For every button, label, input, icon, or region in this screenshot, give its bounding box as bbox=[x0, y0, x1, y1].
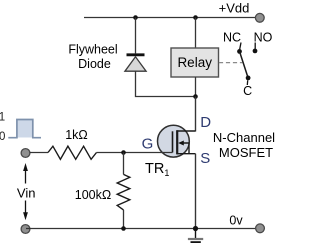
terminal 0v bbox=[256, 224, 265, 233]
terminal +Vdd bbox=[255, 13, 264, 22]
node: drain junction bbox=[193, 94, 198, 99]
switch arm C-NC bbox=[240, 51, 249, 78]
transistor TR1 gate bar bbox=[172, 131, 174, 152]
svg-text:+Vdd: +Vdd bbox=[219, 0, 250, 15]
svg-text:D: D bbox=[200, 114, 211, 131]
dashed link relay to contact arm bbox=[219, 62, 242, 64]
wire: resistor R1 to gate bbox=[97, 152, 173, 154]
wire: +Vdd top rail bbox=[84, 17, 256, 19]
ground stub bbox=[195, 229, 197, 239]
wire: source to 0v rail bbox=[195, 154, 197, 229]
resistor R2 100k zigzag bbox=[117, 174, 130, 210]
wire: NC contact stub bbox=[240, 43, 241, 50]
wire: resistor R2 to 0v rail bbox=[123, 210, 125, 229]
wire: diode anode to drain node bbox=[136, 71, 196, 96]
resistor R1 1k zigzag bbox=[48, 146, 97, 159]
relay K1 bbox=[171, 48, 219, 77]
wire: junction to resistor R2 bbox=[123, 153, 125, 175]
svg-text:N-Channel: N-Channel bbox=[213, 130, 275, 145]
diode D1 cathode bar bbox=[127, 53, 145, 56]
wire: relay coil bottom bbox=[195, 77, 197, 97]
node: gate junction bbox=[121, 150, 126, 155]
transistor TR1 body arrow bbox=[178, 141, 184, 146]
transistor TR1 drain lead bbox=[177, 130, 195, 132]
terminal Vin- bbox=[21, 225, 30, 234]
wire: 0v bottom rail bbox=[26, 228, 256, 230]
svg-text:TR1: TR1 bbox=[145, 161, 169, 178]
svg-text:C: C bbox=[243, 84, 252, 98]
ground bar 1 bbox=[188, 238, 203, 240]
svg-text:NC: NC bbox=[223, 31, 241, 45]
transistor TR1 body wire bbox=[183, 143, 189, 154]
svg-text:0: 0 bbox=[0, 131, 5, 143]
svg-text:1: 1 bbox=[0, 112, 5, 124]
svg-text:Vin: Vin bbox=[17, 186, 36, 201]
svg-text:G: G bbox=[142, 135, 154, 152]
Vin arrow up head bbox=[23, 163, 28, 171]
svg-text:0v: 0v bbox=[229, 213, 243, 227]
terminal Vin+ bbox=[21, 149, 30, 158]
Vin arrow up bbox=[25, 170, 27, 184]
transistor TR1 channel bar bbox=[176, 130, 178, 154]
wire: NO contact stub bbox=[254, 43, 256, 49]
Vin arrow down bbox=[25, 201, 27, 214]
node: NO contact bbox=[253, 49, 258, 54]
wire: drain bbox=[195, 97, 197, 132]
svg-text:NO: NO bbox=[254, 31, 273, 45]
diode D1 bbox=[125, 57, 146, 71]
wire: diode cathode to +Vdd rail bbox=[135, 18, 137, 54]
Vin arrow down head bbox=[23, 212, 28, 220]
wire: C stub bbox=[246, 80, 248, 85]
pulse waveform trace bbox=[8, 120, 41, 138]
node: R2 bottom junction bbox=[121, 226, 126, 231]
svg-text:Flywheel: Flywheel bbox=[68, 43, 117, 57]
svg-text:Relay: Relay bbox=[177, 55, 212, 70]
transistor TR1 MOSFET body circle bbox=[158, 125, 190, 157]
node: source rail junction bbox=[193, 226, 198, 231]
transistor TR1 source lead bbox=[177, 153, 195, 155]
svg-text:1kΩ: 1kΩ bbox=[65, 128, 88, 142]
ground bar 2 bbox=[191, 241, 201, 243]
node: relay top junction bbox=[193, 15, 198, 20]
node: diode top junction bbox=[133, 15, 138, 20]
svg-text:MOSFET: MOSFET bbox=[219, 145, 273, 160]
wire: Vin+ to resistor R1 bbox=[30, 152, 48, 154]
svg-text:Diode: Diode bbox=[78, 57, 111, 71]
svg-text:S: S bbox=[200, 150, 210, 167]
pulse waveform fill bbox=[17, 120, 33, 138]
svg-text:100kΩ: 100kΩ bbox=[75, 188, 111, 202]
node: NC contact bbox=[237, 49, 242, 54]
node: C common contact bbox=[246, 76, 251, 81]
wire: relay coil top bbox=[195, 18, 197, 49]
